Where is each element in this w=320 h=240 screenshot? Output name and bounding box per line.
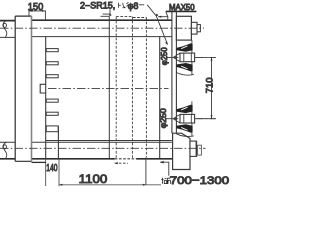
- sprue boss right edge with hook: [158, 17, 168, 20]
- centerline mold axis: [48, 88, 169, 90]
- bottom-right cap: [190, 141, 197, 156]
- movable platen plate: [15, 16, 31, 161]
- fixed die face column right edge (lower part only): [57, 126, 59, 159]
- mold thickness CJK glyph 2 (hou): [167, 178, 170, 184]
- dim 710 arrows: [211, 58, 213, 119]
- T-slot tooth 1: [46, 49, 58, 52]
- diagonal end arrowhead: [165, 42, 168, 45]
- tie bar bottom thick (lower): [0, 158, 172, 160]
- clamp1 lower claw: [176, 63, 192, 72]
- svg-text:1100: 1100: [79, 172, 108, 186]
- clamp2 nozzle body: [180, 114, 195, 123]
- dim 710 line: [211, 57, 213, 118]
- clamp1 nozzle tip lines: [176, 53, 180, 61]
- bottom-right cap face (thick): [195, 142, 197, 156]
- plate-to-face connector line: [32, 161, 46, 163]
- top-right cylinder block: [176, 16, 191, 40]
- centerline nozzle 1: [166, 56, 216, 58]
- svg-text:710: 710: [205, 78, 215, 94]
- fixed die face column left edge: [45, 37, 47, 159]
- T-slot tooth 2: [46, 62, 58, 65]
- body bottom bar top edge: [46, 140, 172, 142]
- dim 710 extension top: [197, 56, 216, 58]
- break squiggle lower-left: [3, 142, 7, 159]
- tie bar bottom edge (upper): [0, 36, 172, 39]
- centerline lower tie bar: [0, 147, 206, 149]
- bottom-right tip: [198, 145, 202, 155]
- T-slot tooth 5: [46, 112, 58, 115]
- clamp2 nozzle inner lines: [184, 114, 192, 123]
- clamp1 nozzle inner lines: [184, 53, 192, 62]
- bottom slot box: [46, 126, 58, 132]
- top-right cap: [191, 22, 197, 34]
- top-right tip: [197, 25, 200, 32]
- clamp1 lower notch: [181, 66, 188, 70]
- svg-text:φ250: φ250: [160, 47, 169, 65]
- leader arrowhead (down onto boss): [109, 13, 112, 16]
- hidden line x=132.4: [131, 17, 133, 159]
- boss edge arrowhead: [158, 16, 161, 18]
- centerline upper tie bar: [0, 27, 204, 29]
- clamp2 nozzle tip cone (dark): [173, 116, 177, 121]
- tie bar top (upper): [0, 19, 172, 21]
- dim 140 left extension: [45, 159, 47, 186]
- locating ring bracket: [40, 84, 46, 93]
- diagonal bend arrowhead: [156, 13, 159, 16]
- clamp2 upper claw: [176, 105, 192, 114]
- clamp1 nozzle tip cone (dark): [173, 55, 177, 60]
- dimension 150 arrows: [29, 10, 45, 12]
- clamp1 upper claw: [176, 43, 192, 52]
- break squiggle upper-left: [3, 21, 7, 38]
- svg-text:700−1300: 700−1300: [170, 175, 229, 187]
- clamp2 swoosh: [176, 134, 194, 137]
- fixed platen column right edge: [175, 12, 177, 133]
- hidden segment of bottom edge: [115, 158, 136, 160]
- dim 1100 arrows: [59, 184, 146, 186]
- dim 710 extension bottom: [197, 118, 216, 120]
- label dash before leader: [139, 4, 144, 6]
- body right edge: [159, 37, 161, 159]
- dimension 150 line: [29, 10, 45, 12]
- svg-text:φ250: φ250: [159, 108, 168, 129]
- label hole-dia CJK glyph 1 (kong): [119, 3, 126, 8]
- platen right edge (grey): [31, 16, 33, 161]
- leader for 2-SR15: [103, 9, 110, 14]
- svg-text:φ8: φ8: [128, 1, 139, 11]
- fixed platen column left edge: [171, 12, 173, 133]
- clamp2 lower claw: [176, 124, 192, 133]
- clamp2 nozzle tip lines: [176, 115, 180, 123]
- svg-text:150: 150: [28, 2, 44, 13]
- svg-text:140: 140: [46, 163, 58, 174]
- clamp2 lower notch: [181, 127, 188, 131]
- bottom-right block with chamfer: [173, 133, 190, 169]
- clamp2 guide face line: [191, 101, 193, 136]
- mold thickness leader arrow 1: [115, 162, 128, 164]
- clamp2 upper notch: [181, 107, 188, 111]
- T-slot tooth 4: [46, 99, 58, 102]
- clamp1 guide face line: [191, 40, 193, 75]
- label hole-dia CJK glyph 2 (jing): [126, 2, 132, 8]
- svg-text:2−SR15,: 2−SR15,: [80, 0, 115, 10]
- sprue boss vertical solid: [108, 16, 110, 159]
- T-slot tooth 3: [46, 75, 58, 78]
- centerline nozzle 2: [166, 118, 216, 120]
- hidden line x=116.2: [115, 17, 117, 159]
- dim 1100 line: [59, 184, 161, 186]
- leader diagonal to sprue seats (two segments): [147, 5, 167, 45]
- clamp1 nozzle body: [180, 53, 195, 62]
- dimension 150 extension lines: [29, 10, 45, 19]
- MAX50 tick diagonal: [166, 12, 168, 17]
- hidden cap y=17.5: [133, 17, 146, 19]
- dim 1100 right extension: [145, 157, 147, 185]
- clamp1 upper notch: [181, 46, 188, 50]
- MAX50 underline / column top: [166, 10, 197, 12]
- mold thickness leader arrow 2: [160, 162, 169, 176]
- hidden cap y=16.6: [116, 16, 132, 18]
- dim 140/1100 shared extension: [58, 159, 60, 186]
- mold thickness CJK glyph 1 (mo): [161, 178, 167, 184]
- sprue boss solid edge: [101, 15, 110, 17]
- tie bar top (lower): [0, 141, 172, 143]
- clamp1 swoosh: [176, 72, 194, 75]
- hidden line x=146.4: [145, 18, 147, 158]
